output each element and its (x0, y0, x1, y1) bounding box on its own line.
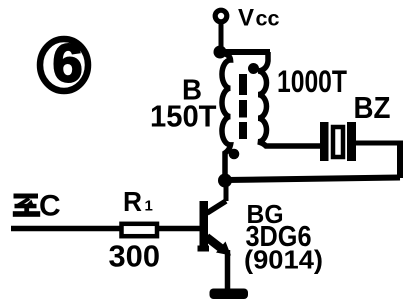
svg-text:V: V (238, 5, 254, 32)
svg-text:1000T: 1000T (277, 63, 347, 99)
svg-text:1: 1 (145, 198, 153, 215)
svg-text:6: 6 (52, 34, 82, 94)
svg-text:BZ: BZ (354, 91, 391, 125)
svg-text:(9014): (9014) (244, 245, 323, 275)
svg-text:150T: 150T (150, 100, 217, 134)
svg-text:C: C (39, 190, 61, 223)
svg-text:300: 300 (109, 239, 161, 274)
svg-text:R: R (123, 186, 142, 217)
svg-text:cc: cc (256, 8, 280, 31)
